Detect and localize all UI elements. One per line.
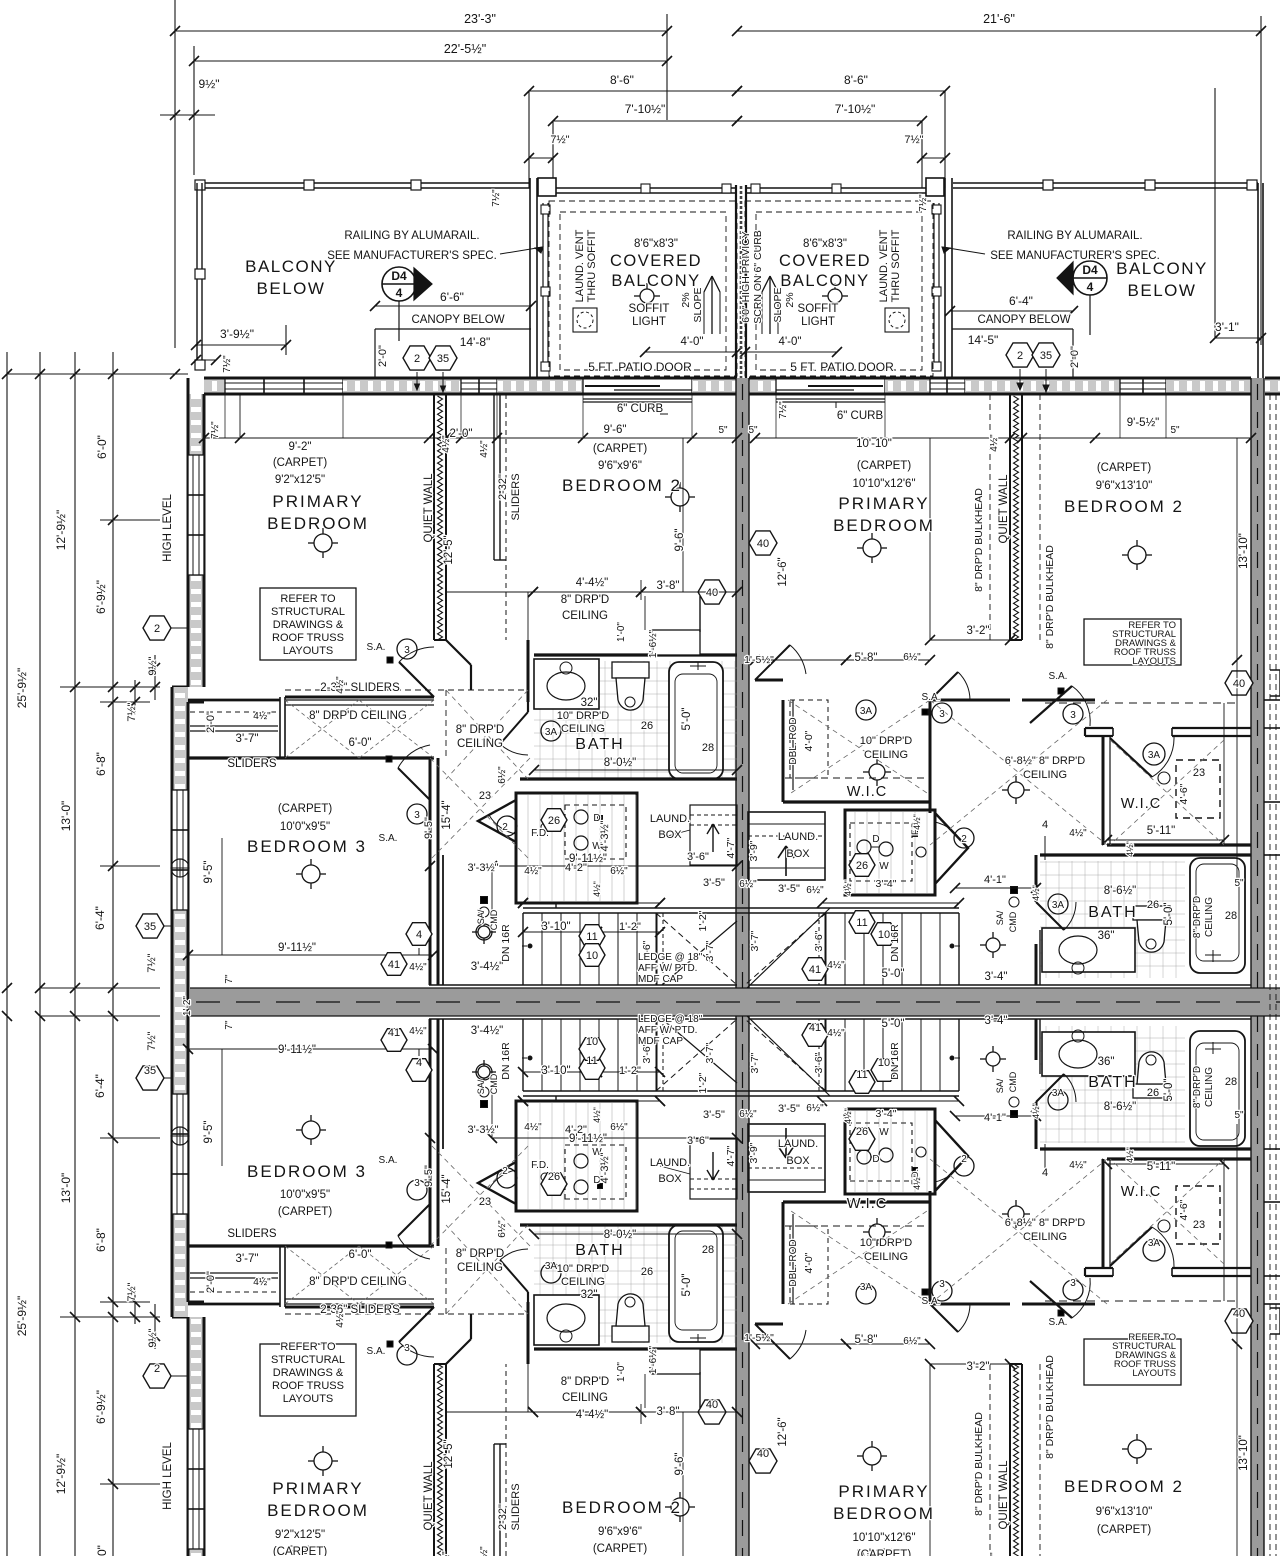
svg-text:5": 5" [1234, 1110, 1244, 1121]
svg-text:35: 35 [144, 921, 156, 933]
svg-text:9'-11½": 9'-11½" [569, 1133, 607, 1145]
svg-text:13'-0": 13'-0" [59, 1173, 73, 1204]
svg-text:32": 32" [581, 697, 598, 709]
svg-text:13'-10": 13'-10" [1238, 1435, 1250, 1471]
svg-text:(CARPET): (CARPET) [857, 1549, 911, 1556]
svg-text:4½": 4½" [1125, 841, 1135, 857]
svg-text:4'-7": 4'-7" [725, 1145, 737, 1166]
svg-text:W.I.C: W.I.C [847, 784, 887, 800]
svg-text:QUIET WALL: QUIET WALL [423, 473, 435, 543]
svg-text:(CARPET): (CARPET) [278, 803, 332, 815]
svg-text:3'-10": 3'-10" [541, 1065, 570, 1077]
svg-text:26: 26 [1147, 1087, 1159, 1099]
svg-text:8" DRP'D BULKHEAD: 8" DRP'D BULKHEAD [1044, 1355, 1056, 1459]
svg-text:4½": 4½" [335, 676, 346, 694]
svg-text:3'-4½": 3'-4½" [471, 1025, 504, 1037]
svg-text:STRUCTURAL: STRUCTURAL [271, 606, 345, 618]
svg-text:3'-3½": 3'-3½" [467, 862, 498, 874]
svg-text:4½": 4½" [843, 880, 853, 896]
svg-text:5'-0": 5'-0" [882, 1018, 905, 1030]
svg-text:26: 26 [548, 815, 560, 827]
svg-text:10" DRP'D: 10" DRP'D [557, 710, 610, 722]
svg-text:23: 23 [479, 1196, 491, 1208]
svg-text:CEILING: CEILING [561, 723, 605, 735]
svg-text:1'-0": 1'-0" [616, 622, 627, 642]
svg-text:5'-8": 5'-8" [855, 1334, 878, 1346]
svg-text:BELOW: BELOW [1128, 281, 1197, 300]
svg-text:CEILING: CEILING [457, 1262, 503, 1274]
svg-text:3'-9": 3'-9" [748, 840, 760, 861]
svg-text:F.D.: F.D. [531, 828, 549, 839]
svg-text:13'-10": 13'-10" [1238, 533, 1250, 569]
svg-text:14'-8": 14'-8" [460, 335, 491, 349]
svg-text:26: 26 [1147, 899, 1159, 911]
svg-text:6'-8½" 8" DRP'D: 6'-8½" 8" DRP'D [1005, 1217, 1086, 1229]
svg-text:12'-5": 12'-5" [443, 1439, 455, 1468]
svg-text:3: 3 [939, 1279, 945, 1290]
mirrored bottom half plan geometry [2, 1002, 1280, 1556]
svg-text:3'-7": 3'-7" [236, 1253, 259, 1265]
svg-text:9½": 9½" [199, 77, 220, 91]
svg-text:13'-0": 13'-0" [59, 801, 73, 832]
svg-text:3: 3 [1070, 1278, 1076, 1289]
svg-text:3'-6": 3'-6" [687, 851, 709, 863]
svg-text:LAUND.: LAUND. [778, 1138, 818, 1150]
svg-text:9½": 9½" [147, 1328, 159, 1347]
svg-text:3'-7": 3'-7" [749, 930, 761, 951]
svg-text:4'-3½": 4'-3½" [599, 1152, 611, 1183]
svg-text:7": 7" [224, 1020, 235, 1030]
svg-text:8" DRP'D CEILING: 8" DRP'D CEILING [309, 1276, 407, 1288]
svg-text:12'-6": 12'-6" [777, 557, 789, 586]
svg-text:4'-6": 4'-6" [1178, 783, 1190, 804]
svg-text:35: 35 [437, 353, 449, 365]
svg-text:4: 4 [416, 929, 422, 941]
svg-text:10" DRP'D: 10" DRP'D [557, 1263, 610, 1275]
svg-text:6'-9½": 6'-9½" [94, 1390, 108, 1424]
svg-text:1'-2": 1'-2" [619, 1065, 641, 1077]
svg-text:1'-2": 1'-2" [697, 910, 709, 931]
svg-text:LAUND.: LAUND. [650, 1157, 690, 1169]
svg-text:21'-6": 21'-6" [983, 12, 1015, 26]
svg-text:SLOPE: SLOPE [692, 287, 704, 322]
svg-text:6½": 6½" [497, 1220, 508, 1238]
svg-text:QUIET WALL: QUIET WALL [423, 1461, 435, 1531]
svg-text:8" DRP'D BULKHEAD: 8" DRP'D BULKHEAD [1044, 545, 1056, 649]
svg-text:5": 5" [748, 425, 758, 436]
svg-text:REFER TO: REFER TO [280, 593, 336, 605]
svg-text:BOX: BOX [786, 848, 810, 860]
svg-text:BALCONY: BALCONY [780, 272, 869, 290]
svg-text:SEE MANUFACTURER'S SPEC.: SEE MANUFACTURER'S SPEC. [327, 250, 497, 262]
svg-text:41: 41 [809, 1022, 821, 1034]
svg-text:CEILING: CEILING [562, 1392, 608, 1404]
svg-text:HIGH LEVEL: HIGH LEVEL [162, 494, 174, 562]
svg-text:8'-6½": 8'-6½" [1104, 1101, 1137, 1113]
svg-text:6'-8": 6'-8" [94, 752, 108, 776]
svg-text:LAUND. VENT: LAUND. VENT [878, 229, 890, 302]
svg-text:W: W [879, 861, 889, 872]
svg-text:1'-6½": 1'-6½" [648, 1345, 659, 1374]
svg-text:4½": 4½" [1031, 885, 1041, 901]
svg-text:6½": 6½" [903, 652, 921, 663]
svg-text:6'-0": 6'-0" [349, 1249, 372, 1261]
svg-text:CEILING: CEILING [864, 1251, 908, 1263]
svg-text:40: 40 [757, 538, 769, 550]
svg-text:2-36" SLIDERS: 2-36" SLIDERS [320, 1304, 400, 1316]
svg-text:BEDROOM 2: BEDROOM 2 [562, 1498, 682, 1517]
svg-text:5'-0": 5'-0" [681, 708, 693, 731]
svg-text:4½": 4½" [409, 1026, 427, 1037]
svg-text:32": 32" [581, 1289, 598, 1301]
svg-text:9'-11½": 9'-11½" [569, 853, 607, 865]
svg-text:BEDROOM: BEDROOM [267, 1501, 369, 1520]
svg-text:DRAWINGS &: DRAWINGS & [273, 619, 344, 631]
svg-text:LIGHT: LIGHT [801, 316, 835, 328]
svg-text:2'-0": 2'-0" [1069, 346, 1081, 368]
svg-text:3'-6": 3'-6" [813, 930, 825, 951]
svg-text:6'-4": 6'-4" [93, 906, 107, 930]
svg-text:1'-5½": 1'-5½" [744, 654, 774, 666]
svg-text:7½": 7½" [146, 953, 158, 972]
svg-text:S.A.: S.A. [1049, 671, 1068, 682]
svg-text:6'-8½" 8" DRP'D: 6'-8½" 8" DRP'D [1005, 755, 1086, 767]
svg-text:10'10"x12'6": 10'10"x12'6" [852, 1532, 915, 1544]
svg-text:9'6"x13'10": 9'6"x13'10" [1096, 1506, 1153, 1518]
svg-text:6½": 6½" [739, 879, 757, 890]
svg-text:CANOPY BELOW: CANOPY BELOW [411, 314, 504, 326]
svg-text:15'-4": 15'-4" [441, 800, 453, 829]
svg-text:CMD: CMD [489, 1073, 499, 1094]
svg-text:6'-8": 6'-8" [94, 1228, 108, 1252]
svg-text:3'-6": 3'-6" [687, 1135, 709, 1147]
svg-text:BEDROOM 2: BEDROOM 2 [562, 476, 682, 495]
svg-text:(CARPET): (CARPET) [593, 443, 647, 455]
svg-text:BEDROOM: BEDROOM [267, 514, 369, 533]
svg-text:5'-0": 5'-0" [1163, 903, 1175, 926]
svg-text:4½": 4½" [592, 1107, 602, 1123]
svg-text:QUIET WALL: QUIET WALL [998, 474, 1010, 544]
svg-text:1'-2": 1'-2" [182, 996, 193, 1016]
svg-text:6'-0": 6'-0" [95, 1545, 109, 1556]
svg-text:6'-4": 6'-4" [93, 1074, 107, 1098]
svg-text:DN 16R: DN 16R [889, 1042, 901, 1080]
svg-text:3'-9½": 3'-9½" [220, 327, 254, 341]
svg-text:1'-2": 1'-2" [697, 1072, 709, 1093]
svg-text:(CARPET): (CARPET) [273, 457, 327, 469]
svg-text:4: 4 [396, 286, 403, 300]
svg-text:3'-5": 3'-5" [703, 877, 725, 889]
svg-text:10'-10": 10'-10" [856, 438, 892, 450]
svg-text:11: 11 [586, 931, 597, 943]
svg-text:3A: 3A [545, 727, 558, 738]
svg-text:7½": 7½" [126, 1282, 138, 1301]
svg-text:9'6"x13'10": 9'6"x13'10" [1096, 480, 1153, 492]
svg-text:25'-9½": 25'-9½" [15, 1296, 29, 1337]
svg-text:1'-0": 1'-0" [616, 1362, 627, 1382]
svg-text:(CARPET): (CARPET) [1097, 462, 1151, 474]
svg-text:3'-4": 3'-4" [876, 878, 897, 890]
svg-text:2%: 2% [784, 292, 796, 307]
svg-text:23: 23 [1193, 1219, 1205, 1231]
svg-text:CMD: CMD [1008, 1071, 1018, 1092]
svg-text:LAUND.: LAUND. [650, 813, 690, 825]
svg-text:6'-9½": 6'-9½" [94, 580, 108, 614]
svg-text:BEDROOM 2: BEDROOM 2 [1064, 1477, 1184, 1496]
svg-text:5'-8": 5'-8" [855, 652, 878, 664]
svg-text:11: 11 [856, 1069, 867, 1081]
svg-text:W.I.C: W.I.C [1121, 796, 1161, 812]
svg-text:LAYOUTS: LAYOUTS [1132, 1368, 1176, 1379]
svg-text:3'-2": 3'-2" [967, 625, 990, 637]
svg-text:7½": 7½" [210, 421, 221, 439]
svg-text:SEE MANUFACTURER'S SPEC.: SEE MANUFACTURER'S SPEC. [990, 250, 1160, 262]
svg-text:6'-0": 6'-0" [95, 435, 109, 459]
svg-text:11: 11 [856, 917, 867, 929]
svg-text:2-36" SLIDERS: 2-36" SLIDERS [320, 682, 400, 694]
svg-text:23: 23 [1193, 767, 1205, 779]
svg-text:4½": 4½" [592, 881, 602, 897]
svg-text:7½": 7½" [126, 702, 138, 721]
svg-text:4'-7": 4'-7" [725, 837, 737, 858]
svg-text:2-32": 2-32" [497, 1504, 509, 1530]
svg-text:CMD: CMD [489, 909, 499, 930]
svg-text:MDF CAP: MDF CAP [638, 974, 683, 985]
svg-text:ROOF TRUSS: ROOF TRUSS [272, 632, 344, 644]
svg-text:HIGH LEVEL: HIGH LEVEL [162, 1442, 174, 1510]
svg-text:4½": 4½" [524, 1122, 542, 1133]
svg-text:4½": 4½" [409, 962, 427, 973]
svg-text:PRIMARY: PRIMARY [838, 1482, 929, 1501]
svg-text:3'-4½": 3'-4½" [471, 961, 504, 973]
svg-text:(CARPET): (CARPET) [273, 1546, 327, 1556]
svg-text:LIGHT: LIGHT [632, 316, 666, 328]
svg-text:3'-5": 3'-5" [703, 1109, 725, 1121]
svg-text:6" CURB: 6" CURB [617, 403, 664, 415]
svg-text:D4: D4 [1082, 263, 1098, 277]
svg-text:6'-6": 6'-6" [440, 290, 464, 304]
svg-text:4½": 4½" [1069, 1160, 1087, 1171]
svg-text:4: 4 [416, 1057, 422, 1069]
svg-text:5": 5" [1234, 878, 1244, 889]
svg-text:4½": 4½" [479, 1546, 490, 1556]
svg-text:8" DRP'D: 8" DRP'D [561, 1376, 609, 1388]
svg-text:PRIMARY: PRIMARY [272, 492, 363, 511]
svg-text:8'-0½": 8'-0½" [604, 757, 637, 769]
svg-text:(CARPET): (CARPET) [278, 1206, 332, 1218]
svg-text:LAYOUTS: LAYOUTS [283, 1393, 334, 1405]
svg-text:CEILING: CEILING [1204, 897, 1215, 937]
svg-text:4'-4½": 4'-4½" [576, 577, 609, 589]
svg-text:8" DRP'D: 8" DRP'D [456, 724, 504, 736]
svg-text:W: W [879, 1127, 889, 1138]
svg-text:3'-4": 3'-4" [876, 1108, 897, 1120]
svg-text:9½": 9½" [147, 656, 159, 675]
svg-text:9'-2": 9'-2" [289, 441, 312, 453]
svg-text:6½": 6½" [806, 1103, 824, 1114]
svg-text:4½": 4½" [912, 814, 922, 830]
svg-text:4'-1": 4'-1" [984, 1112, 1006, 1124]
svg-text:26: 26 [856, 860, 868, 872]
svg-text:D: D [872, 834, 879, 845]
svg-text:9'-5": 9'-5" [203, 861, 215, 884]
svg-text:7½": 7½" [222, 355, 233, 373]
svg-text:7½": 7½" [491, 189, 502, 207]
svg-text:8'-6½": 8'-6½" [1104, 885, 1137, 897]
svg-text:4'-4½": 4'-4½" [576, 1409, 609, 1421]
svg-text:D4: D4 [391, 269, 407, 283]
svg-text:2: 2 [414, 353, 420, 365]
svg-text:3'-3½": 3'-3½" [467, 1124, 498, 1136]
svg-text:9'-6": 9'-6" [604, 424, 627, 436]
svg-text:BATH: BATH [1088, 904, 1137, 921]
svg-text:D: D [872, 1154, 879, 1165]
svg-text:4½": 4½" [441, 1551, 452, 1556]
svg-text:SA/: SA/ [476, 909, 486, 924]
svg-text:4½": 4½" [1031, 1103, 1041, 1119]
svg-text:3A: 3A [860, 706, 873, 717]
svg-text:2: 2 [154, 1363, 160, 1375]
svg-text:28: 28 [702, 1244, 714, 1256]
svg-text:(CARPET): (CARPET) [1097, 1524, 1151, 1536]
svg-text:41: 41 [809, 964, 821, 976]
svg-text:40: 40 [1233, 678, 1245, 690]
svg-text:3'-2": 3'-2" [967, 1361, 990, 1373]
svg-text:3A: 3A [1148, 750, 1161, 761]
svg-text:SA/: SA/ [995, 1078, 1005, 1093]
svg-text:7½": 7½" [550, 134, 569, 146]
svg-text:SA/: SA/ [476, 1079, 486, 1094]
svg-text:3A: 3A [1148, 1238, 1161, 1249]
svg-text:THRU SOFFIT: THRU SOFFIT [890, 229, 902, 302]
svg-text:26: 26 [641, 1266, 653, 1278]
svg-text:LEDGE @ 18": LEDGE @ 18" [638, 952, 703, 963]
svg-text:SCRN ON 6" CURB: SCRN ON 6" CURB [752, 230, 764, 324]
svg-text:3: 3 [1070, 710, 1076, 721]
svg-text:9'-5": 9'-5" [423, 817, 435, 839]
svg-text:22'-5½": 22'-5½" [444, 42, 486, 56]
svg-text:4½": 4½" [989, 1552, 1000, 1556]
svg-text:1'-5½": 1'-5½" [744, 1332, 774, 1344]
svg-text:(CARPET): (CARPET) [857, 460, 911, 472]
svg-text:4'-1": 4'-1" [984, 874, 1006, 886]
svg-text:2: 2 [154, 623, 160, 635]
svg-text:4'-6": 4'-6" [1178, 1199, 1190, 1220]
svg-text:4½": 4½" [843, 1108, 853, 1124]
svg-text:BALCONY: BALCONY [245, 257, 337, 276]
svg-text:1'-2": 1'-2" [619, 921, 641, 933]
svg-text:14'-5": 14'-5" [968, 333, 999, 347]
svg-text:4½": 4½" [335, 1310, 346, 1328]
svg-text:CANOPY BELOW: CANOPY BELOW [977, 314, 1070, 326]
top dimension lines and balconies [174, 0, 176, 348]
svg-text:8'6"x8'3": 8'6"x8'3" [634, 238, 678, 250]
svg-text:4'-0": 4'-0" [779, 336, 802, 348]
svg-text:26: 26 [548, 1171, 560, 1183]
svg-text:3'-8": 3'-8" [657, 580, 680, 592]
svg-text:4'-0": 4'-0" [803, 730, 815, 751]
svg-text:9'-6": 9'-6" [674, 1453, 686, 1476]
svg-text:4½": 4½" [253, 711, 271, 722]
svg-text:9'-11½": 9'-11½" [278, 1044, 316, 1056]
svg-text:3'-4": 3'-4" [985, 1015, 1008, 1027]
svg-text:SLIDERS: SLIDERS [510, 1483, 522, 1530]
svg-text:3: 3 [414, 810, 420, 821]
svg-text:CEILING: CEILING [1204, 1067, 1215, 1107]
svg-text:S.A.: S.A. [1049, 1317, 1068, 1328]
svg-text:BOX: BOX [658, 1173, 682, 1185]
svg-text:3'-6": 3'-6" [813, 1052, 825, 1073]
svg-text:12'-5": 12'-5" [443, 535, 455, 564]
svg-text:9'2"x12'5": 9'2"x12'5" [275, 1529, 325, 1541]
svg-text:2: 2 [961, 834, 967, 845]
svg-text:15'-4": 15'-4" [441, 1174, 453, 1203]
svg-text:28: 28 [702, 742, 714, 754]
svg-text:S.A.: S.A. [922, 692, 941, 703]
svg-text:W.I.C: W.I.C [847, 1196, 887, 1212]
svg-text:3A: 3A [860, 1282, 873, 1293]
svg-text:COVERED: COVERED [779, 252, 871, 270]
svg-text:3'-4": 3'-4" [985, 971, 1008, 983]
svg-text:5": 5" [1170, 425, 1180, 436]
svg-text:LAYOUTS: LAYOUTS [283, 645, 334, 657]
svg-text:F.D.: F.D. [531, 1160, 549, 1171]
svg-text:26: 26 [641, 720, 653, 732]
svg-text:S.A.: S.A. [367, 642, 386, 653]
svg-text:4½": 4½" [1069, 828, 1087, 839]
svg-text:35: 35 [144, 1065, 156, 1077]
svg-text:DBL. ROD: DBL. ROD [788, 717, 799, 764]
svg-text:8'-0½": 8'-0½" [604, 1229, 637, 1241]
svg-text:8" DRP'D: 8" DRP'D [561, 594, 609, 606]
svg-text:7": 7" [224, 974, 235, 984]
top half plan geometry [2, 352, 1280, 1002]
svg-text:(CARPET): (CARPET) [593, 1543, 647, 1555]
svg-text:5'-11": 5'-11" [1147, 825, 1175, 837]
svg-text:10: 10 [586, 950, 598, 962]
svg-text:4'-3½": 4'-3½" [599, 820, 611, 851]
svg-text:3'-10": 3'-10" [541, 921, 570, 933]
svg-text:S.A.: S.A. [379, 1155, 398, 1166]
svg-text:CEILING: CEILING [561, 1276, 605, 1288]
svg-text:PRIMARY: PRIMARY [272, 1479, 363, 1498]
svg-text:3'-5": 3'-5" [778, 883, 800, 895]
svg-text:12'-9½": 12'-9½" [54, 510, 68, 551]
svg-text:S.A.: S.A. [367, 1346, 386, 1357]
svg-text:3'-8": 3'-8" [657, 1406, 680, 1418]
svg-text:23: 23 [479, 790, 491, 802]
svg-text:3'-7": 3'-7" [749, 1052, 761, 1073]
svg-text:AFF W/ PTD.: AFF W/ PTD. [638, 963, 697, 974]
svg-text:3: 3 [404, 645, 410, 656]
svg-text:8" DRP'D: 8" DRP'D [1192, 896, 1203, 938]
svg-text:8'-6": 8'-6" [844, 73, 868, 87]
svg-text:QUIET WALL: QUIET WALL [998, 1460, 1010, 1530]
svg-text:40: 40 [706, 587, 718, 599]
svg-text:4½": 4½" [989, 434, 1000, 452]
svg-text:7'-10½": 7'-10½" [835, 102, 876, 116]
svg-text:36": 36" [1098, 930, 1115, 942]
svg-text:10'0"x9'5": 10'0"x9'5" [280, 821, 330, 833]
svg-text:CEILING: CEILING [1023, 1231, 1067, 1243]
svg-text:4'-0": 4'-0" [803, 1252, 815, 1273]
svg-text:DN 16R: DN 16R [889, 924, 901, 962]
svg-text:9'-5½": 9'-5½" [1127, 417, 1160, 429]
svg-text:4½": 4½" [827, 1028, 845, 1039]
svg-text:CEILING: CEILING [864, 749, 908, 761]
svg-text:2'-0": 2'-0" [450, 428, 473, 440]
svg-text:2%: 2% [680, 292, 692, 307]
